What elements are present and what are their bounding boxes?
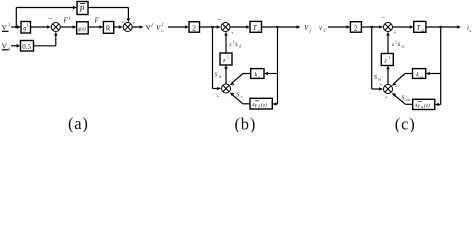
- node z-1 Sd label b: [229, 41, 242, 49]
- svg-text:1: 1: [388, 55, 390, 60]
- arrowhead into Tw: [410, 25, 414, 29]
- svg-text:ω: ω: [420, 74, 423, 79]
- box Tw: [414, 21, 426, 32]
- wire sum1 to g(z): [61, 26, 74, 28]
- svg-text:0.5: 0.5: [22, 43, 31, 51]
- svg-text:V: V: [2, 42, 8, 51]
- svg-text:+: +: [393, 32, 396, 37]
- svg-text:ω: ω: [422, 28, 425, 33]
- node Vf b output label: [304, 24, 312, 33]
- box 2c: [350, 22, 361, 33]
- summing junction bottom c: [384, 85, 393, 94]
- box k b: [251, 69, 264, 79]
- summing junction S1c: [384, 23, 393, 32]
- wire g(z) to R: [88, 26, 100, 28]
- svg-text:R: R: [106, 25, 111, 33]
- node F label: [94, 17, 100, 25]
- minus sign at bottom sum c upper right: [395, 85, 398, 90]
- node Vf output label: [146, 22, 154, 32]
- arrowhead into bottom box c: [435, 103, 439, 107]
- svg-text:V: V: [2, 23, 8, 32]
- box R: [103, 22, 113, 34]
- node z-1 Sw label c: [391, 41, 405, 49]
- box 2b: [189, 22, 200, 33]
- caption (c): [395, 115, 416, 134]
- box 4g(z) b: [250, 98, 272, 109]
- wire bottom box output c: [406, 103, 413, 105]
- svg-text:−: −: [218, 16, 222, 24]
- svg-text:ω: ω: [402, 45, 405, 49]
- wire z box up to sum1b: [225, 35, 227, 53]
- junction dot c2: [439, 26, 442, 29]
- wire down into sum2: [127, 8, 129, 20]
- wire tap into k box c: [430, 73, 441, 75]
- svg-text:1: 1: [8, 22, 10, 27]
- arrowhead up into z box c: [386, 66, 390, 70]
- svg-text:cω: cω: [406, 97, 411, 102]
- plus sign above left bottom sum c: [380, 84, 383, 89]
- wire down lane B into bottom box c: [438, 104, 440, 106]
- svg-text:+: +: [380, 84, 383, 89]
- svg-text:(a): (a): [68, 114, 89, 132]
- arrowhead output Vfb: [297, 25, 301, 29]
- arrowhead into sum1c: [379, 25, 383, 29]
- wire g1 to sum1: [31, 26, 48, 28]
- box g1: [21, 22, 31, 34]
- svg-text:2: 2: [354, 24, 358, 33]
- box Ts: [250, 21, 262, 32]
- svg-text:S: S: [235, 42, 238, 48]
- wire bottom sum up to z box b: [225, 69, 227, 84]
- summing junction S2a: [123, 23, 132, 32]
- wire 2b to sum1b: [200, 26, 218, 28]
- svg-text:1: 1: [27, 23, 29, 28]
- svg-text:V: V: [304, 24, 309, 32]
- minus sign at bottom sum b upper right: [232, 85, 235, 90]
- arrowhead into box 2b: [185, 25, 189, 29]
- arrowhead diagonal up into bottom sum c: [392, 93, 397, 97]
- svg-text:−: −: [395, 85, 398, 90]
- plus sign left of sum2: [121, 20, 124, 26]
- arrowhead up into sum1c: [386, 32, 390, 36]
- svg-text:z: z: [383, 58, 387, 65]
- svg-text:+: +: [217, 95, 220, 100]
- underline of Vd: [2, 49, 9, 51]
- arrowhead into g(z): [73, 25, 77, 29]
- wire right into bottom sum b: [213, 88, 218, 90]
- wire sum1b to Ts: [230, 26, 246, 28]
- arrowhead output ic: [457, 25, 461, 29]
- svg-text:1: 1: [69, 16, 71, 21]
- lane A wire down from junction c: [371, 27, 373, 89]
- svg-text:+: +: [385, 96, 388, 101]
- wire input Vd: [11, 45, 17, 47]
- wire sum2 to output: [132, 26, 140, 28]
- arrowhead up into sum1b: [224, 32, 228, 36]
- wire bottom box output b: [243, 103, 250, 105]
- arrowhead into sum1b: [217, 25, 221, 29]
- arrowhead into g1: [17, 25, 21, 29]
- node Vc input label: [156, 22, 164, 34]
- svg-text:ω: ω: [378, 77, 381, 82]
- wire right into bottom sum c: [372, 88, 380, 90]
- summing junction S1a: [51, 23, 60, 32]
- wire Tw to output: [426, 26, 458, 28]
- wire Ts to output: [262, 26, 298, 28]
- wire k box output c: [405, 73, 413, 75]
- svg-text:s: s: [470, 28, 472, 33]
- arrowhead into R: [99, 25, 103, 29]
- box 4g(z) c: [413, 99, 435, 109]
- arrowhead output Vf: [140, 25, 144, 29]
- arrowhead into bottom sum c: [379, 87, 383, 91]
- wire top horizontal to P box: [16, 7, 73, 9]
- diagonal wire bottom box to bottom sum b: [232, 94, 243, 104]
- wire input vC: [328, 26, 347, 28]
- node Vd input label: [2, 42, 11, 52]
- plus sign below left bottom sum b: [217, 95, 220, 100]
- wire R to sum2: [114, 26, 121, 28]
- minus sign at sum1: [49, 15, 53, 23]
- diagonal wire k to bottom sum b: [232, 74, 244, 84]
- svg-text:c: c: [162, 28, 164, 33]
- caption (a): [68, 114, 89, 133]
- wire sum1c to Tw: [393, 26, 410, 28]
- svg-text:d: d: [239, 45, 241, 49]
- svg-text:S: S: [402, 96, 405, 102]
- box z-1 b: [220, 53, 232, 65]
- svg-text:S: S: [237, 93, 240, 99]
- wire k box output b: [243, 73, 251, 75]
- node V1 input label: [2, 22, 11, 32]
- node vC input label: [319, 24, 328, 33]
- svg-text:S: S: [374, 75, 377, 81]
- node Sd label b: [215, 73, 222, 80]
- arrowhead diagonal into bottom sum b: [230, 82, 235, 85]
- wire down lane B into bottom box b: [276, 103, 278, 105]
- summing junction bottom b: [222, 84, 231, 93]
- node Sc label b: [237, 93, 243, 100]
- arrowhead into bottom sum b: [217, 87, 221, 91]
- arrowhead diagonal up into bottom sum b: [230, 92, 235, 96]
- svg-text:2: 2: [192, 24, 196, 33]
- svg-text:−: −: [382, 14, 386, 22]
- svg-text:c: c: [241, 94, 243, 99]
- plus sign below right of sum1c: [393, 32, 396, 37]
- svg-text:(c): (c): [395, 115, 416, 133]
- underline of V1: [2, 30, 9, 32]
- arrowhead into 0.5 box: [17, 44, 21, 48]
- junction dot b: [211, 26, 214, 29]
- lane B wire down from output junction c: [440, 27, 442, 105]
- svg-text:S: S: [398, 42, 401, 48]
- diagonal wire k to bottom sum c: [394, 74, 406, 84]
- diagonal wire bottom box to bottom sum c: [394, 95, 406, 105]
- wire input Vc: [168, 26, 186, 28]
- box z-1 c: [381, 54, 393, 66]
- junction dot: [15, 26, 18, 29]
- wire up into sum1: [55, 35, 57, 46]
- svg-text:z: z: [222, 57, 226, 64]
- plus sign below bottom sum c: [385, 96, 388, 101]
- summing junction S1b: [221, 23, 230, 32]
- wire z box up to sum1c: [387, 35, 389, 53]
- node Scw label c: [402, 96, 411, 103]
- junction dot c: [370, 26, 373, 29]
- svg-text:−: −: [232, 85, 235, 90]
- node F' label: [63, 16, 71, 25]
- arrowhead into Ts: [246, 25, 250, 29]
- node Sw label c: [374, 75, 381, 82]
- arrowhead down into sum2: [127, 18, 131, 22]
- junction dot b2: [276, 26, 279, 29]
- lane A wire down from junction b: [212, 27, 214, 89]
- arrowhead into k box b: [264, 72, 268, 76]
- wire bottom sum up to z box c: [387, 69, 389, 84]
- wire up from junction: [15, 8, 17, 28]
- arrowhead up into sum1: [54, 32, 58, 36]
- svg-text:1: 1: [227, 55, 229, 60]
- arrowhead into sum1: [47, 25, 51, 29]
- lane B wire down from output junction b: [277, 27, 279, 104]
- svg-text:(b): (b): [235, 115, 257, 133]
- arrowhead into sum2: [119, 25, 123, 29]
- plus sign right of sum2: [132, 21, 135, 27]
- minus sign at sum1b: [218, 16, 222, 24]
- wire 0.5 to below sum1: [34, 45, 56, 47]
- arrowhead into k box c: [426, 72, 430, 76]
- box k c: [413, 69, 426, 79]
- plus sign below right of sum1b: [231, 32, 234, 37]
- wire 2c to sum1c: [361, 26, 379, 28]
- svg-text:k: k: [416, 73, 419, 79]
- minus sign at sum1c: [382, 14, 386, 22]
- arrowhead into P box: [73, 6, 77, 10]
- wire input V1: [11, 26, 18, 28]
- svg-text:P: P: [79, 5, 85, 14]
- svg-text:F: F: [94, 17, 100, 25]
- svg-text:V: V: [156, 24, 161, 32]
- svg-text:−: −: [49, 15, 53, 23]
- svg-text:g(z): g(z): [78, 25, 86, 32]
- svg-text:+: +: [231, 32, 234, 37]
- arrowhead diagonal into bottom sum c: [392, 82, 397, 85]
- wire tap into k box b: [268, 73, 278, 75]
- svg-text:(z): (z): [261, 101, 267, 108]
- svg-text:S: S: [215, 73, 218, 79]
- box P: [77, 2, 88, 15]
- box 0.5: [21, 41, 34, 52]
- caption (b): [235, 115, 257, 134]
- svg-text:+: +: [132, 21, 135, 27]
- svg-text:(z): (z): [424, 102, 430, 109]
- box g(z): [77, 22, 89, 34]
- svg-text:d: d: [258, 105, 260, 109]
- wire from P box to sum2: [88, 7, 128, 9]
- node i output label: [467, 24, 472, 33]
- arrowhead up into z box b: [224, 65, 228, 69]
- svg-text:k: k: [255, 73, 258, 79]
- arrowhead into box 2c: [346, 25, 350, 29]
- arrowhead into bottom box b: [272, 102, 276, 106]
